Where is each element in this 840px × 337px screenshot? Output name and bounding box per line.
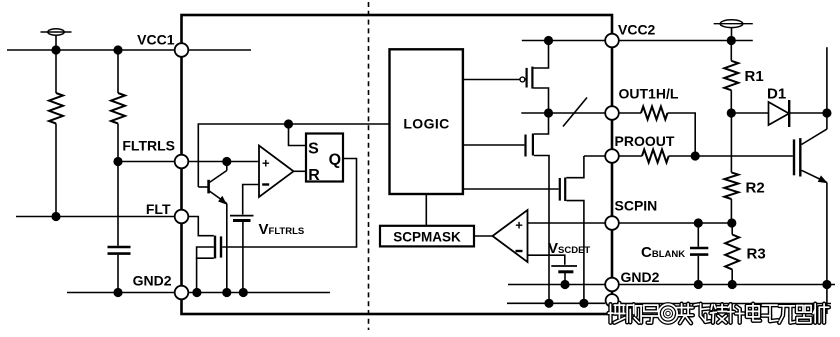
net FLT external wire	[16, 216, 175, 218]
transistor Q1 (npn)	[198, 162, 227, 293]
svg-text:SCPMASK: SCPMASK	[393, 230, 461, 245]
net SCPIN external wire	[619, 222, 732, 224]
resistor (PROOUT series)	[619, 150, 695, 163]
svg-text:VCC2: VCC2	[618, 22, 656, 38]
pin VCC2	[605, 34, 619, 48]
junction: GND2 / filter capacitor	[113, 288, 122, 297]
svg-text:R3: R3	[747, 246, 766, 263]
svg-text:FLTRLS: FLTRLS	[122, 138, 175, 154]
resistor R1	[724, 41, 738, 114]
junction: VCC2 / R1	[727, 36, 736, 45]
transistor M3 (low-side NMOS)	[463, 113, 549, 303]
junction: left supply / pull-up resistor	[51, 45, 60, 54]
net GND2 internal wire	[189, 292, 331, 294]
SR latch U3	[306, 134, 343, 185]
junction: GND2 / M1 source	[192, 288, 201, 297]
net FLTRLS external wire	[118, 161, 175, 163]
resistor (FLTRLS pull-up)	[111, 50, 125, 162]
junction: FLT / pull-up resistor	[51, 212, 60, 221]
pin VCC1	[175, 43, 189, 57]
transistor M4 (PROOUT pull-down NMOS)	[463, 156, 584, 303]
pin GND2 (left)	[175, 286, 189, 300]
op-amp comparator U6 (short-circuit detect)	[493, 210, 528, 262]
battery VSCDET reference	[551, 266, 577, 285]
pin OUT1H/L	[605, 106, 619, 120]
watermark band (Sohu overlay, drawn as shapes)	[609, 303, 829, 323]
net FLTRLS internal wire to comparator	[189, 161, 260, 163]
svg-text:R2: R2	[746, 180, 765, 197]
wire: internal top rail to LOGIC	[198, 124, 389, 187]
svg-text:D1: D1	[767, 86, 786, 103]
net SCPIN internal wire	[528, 222, 606, 224]
net VCC1 supply wire	[7, 49, 175, 51]
junction: GND2 / CBLANK	[694, 280, 703, 289]
resistor (FLT pull-up)	[49, 50, 63, 217]
pin FLTRLS	[175, 155, 189, 169]
pin GND2 (right)	[605, 278, 619, 292]
wire: LOGIC to SCPMASK	[425, 194, 427, 226]
svg-text:+: +	[515, 218, 523, 233]
net VEE2 internal rail	[507, 302, 605, 304]
pin SCPIN	[605, 216, 619, 230]
svg-text:+: +	[262, 156, 270, 171]
net GND2 right internal wire	[508, 284, 605, 286]
wire: latch S input elbow	[289, 124, 307, 146]
junction: GND2 / IGBT emitter	[822, 280, 831, 289]
junction: GND2 / R3	[728, 280, 737, 289]
pin PROOUT	[605, 149, 619, 163]
transistor Q2 (IGBT)	[794, 47, 828, 314]
svg-text:LOGIC: LOGIC	[403, 116, 449, 132]
LOGIC block U4	[390, 49, 463, 194]
junction: R1 / D1 / R2 node	[727, 108, 736, 117]
svg-text:PROOUT: PROOUT	[615, 133, 675, 149]
VCC1 internal stub wire	[189, 49, 252, 51]
svg-text:FLT: FLT	[146, 201, 171, 217]
level-shift slash across OUT wire	[563, 98, 587, 127]
net VCC2 internal wire	[522, 40, 605, 42]
net PROOUT internal wire	[584, 155, 605, 157]
wire: comparator minus input	[243, 185, 259, 215]
svg-text:SCPIN: SCPIN	[615, 198, 658, 214]
svg-text:GND2: GND2	[621, 269, 660, 285]
junction: SCPIN / R2 / R3	[727, 218, 736, 227]
svg-text:R1: R1	[745, 68, 764, 85]
svg-text:Q: Q	[329, 151, 341, 168]
wire: gate node to IGBT gate	[695, 155, 793, 157]
capacitor (FLTRLS filter)	[108, 247, 131, 293]
junction: VCC1 / FLTRLS pull-up resistor	[113, 45, 122, 54]
wire: SCPMASK to comparator output	[474, 235, 493, 237]
net GND2 right external wire	[619, 284, 835, 286]
junction: top rail / latch S branch	[284, 119, 293, 128]
junction: FLTRLS / transistor collector	[222, 157, 231, 166]
wire: latch Q feedback to FLT MOSFET gate	[222, 159, 356, 248]
diode D1 (desat)	[731, 100, 827, 127]
wire: FLTRLS node down to filter capacitor	[117, 162, 119, 246]
junction: GND2 / VFLTRLS battery	[239, 288, 248, 297]
wire: comparator minus input to VSCDET	[528, 255, 565, 265]
galvanic isolation dashed line	[368, 2, 370, 330]
capacitor CBLANK	[690, 223, 708, 285]
net VCC2 external wire	[619, 40, 753, 42]
pin FLT	[175, 210, 189, 224]
svg-text:R: R	[308, 167, 320, 184]
net OUT1H/L internal wire	[521, 112, 605, 114]
junction: GND2 / VSCDET battery	[560, 280, 569, 289]
wire: comparator output to latch R	[294, 170, 307, 172]
op-amp comparator U2 (FLTRLS)	[259, 146, 294, 198]
junction: gate node	[691, 151, 700, 160]
IC boundary box U1	[182, 15, 613, 314]
junction: VEE2 / M3 source	[544, 299, 553, 308]
battery VFLTRLS reference	[230, 216, 254, 293]
junction: SCPIN / CBLANK	[694, 218, 703, 227]
transistor M2 (high-side PMOS)	[463, 41, 549, 114]
supply terminal symbol (left)	[41, 29, 72, 50]
resistor R3	[725, 223, 739, 285]
net GND2 left external wire	[67, 292, 175, 294]
pin VEE2 (unlabeled)	[606, 294, 619, 307]
junction: OUT rail	[544, 108, 553, 117]
svg-text:VCC1: VCC1	[137, 32, 175, 48]
resistor R2	[724, 113, 738, 223]
junction: FLTRLS / filter capacitor	[113, 157, 122, 166]
svg-text:S: S	[308, 140, 319, 157]
supply terminal symbol (right)	[714, 20, 753, 41]
svg-text:GND2: GND2	[133, 273, 172, 289]
transistor M1 (FLT open-drain MOSFET)	[189, 217, 222, 293]
junction: VEE2 / M4 source	[579, 299, 588, 308]
SCPMASK block U5	[380, 226, 474, 247]
svg-text:OUT1H/L: OUT1H/L	[619, 86, 679, 102]
resistor (OUT1H/L gate resistor)	[619, 107, 695, 157]
net VEE2 external wire	[618, 303, 831, 305]
junction: GND2 / Q1 emitter	[222, 288, 231, 297]
junction: D1 cathode / IGBT collector	[822, 108, 831, 117]
junction: VCC2 / M2 source	[544, 36, 553, 45]
